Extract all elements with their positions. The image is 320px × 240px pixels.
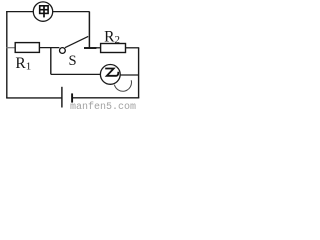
resistor R2 body (101, 44, 126, 53)
wire bottom from left vertical to battery (6, 97, 61, 99)
meter 甲 glyph (40, 6, 48, 18)
switch S blade (open) (65, 36, 88, 47)
wire right vertical (138, 48, 140, 99)
meter 乙 circle (100, 65, 120, 85)
node junction bar between switch and R2 (84, 47, 96, 49)
wire left vertical (6, 11, 8, 98)
wire from meter 乙 to right vertical (120, 74, 138, 76)
meter 乙 glyph (106, 69, 118, 76)
svg-text:R2: R2 (104, 28, 120, 46)
wire from R1 to switch S hinge (39, 47, 59, 49)
wire middle from left vertical to resistor R1 (6, 47, 15, 49)
wire from 乙 tap corner to meter 乙 (51, 73, 101, 75)
wire from node to R2 (96, 47, 101, 49)
meter 甲 circle (33, 2, 52, 21)
switch S hinge circle (60, 48, 66, 54)
wire top from left corner to meter 甲 (6, 11, 33, 13)
battery long plate (+) (61, 87, 63, 108)
battery short plate (-) (71, 93, 73, 102)
wire bottom from battery to right vertical (73, 97, 139, 99)
stray arc mark below meter 乙 (114, 80, 131, 91)
svg-text:S: S (69, 53, 77, 69)
wire from R2 to right vertical (126, 47, 140, 49)
wire vertical branch down to node between S and R2 (88, 12, 90, 48)
svg-text:manfen5.com: manfen5.com (70, 101, 136, 112)
resistor R1 body (15, 43, 39, 53)
wire top from meter 甲 to right branch corner (53, 11, 90, 13)
node tap for meter 乙 branch (50, 48, 52, 75)
svg-text:R1: R1 (15, 55, 31, 73)
